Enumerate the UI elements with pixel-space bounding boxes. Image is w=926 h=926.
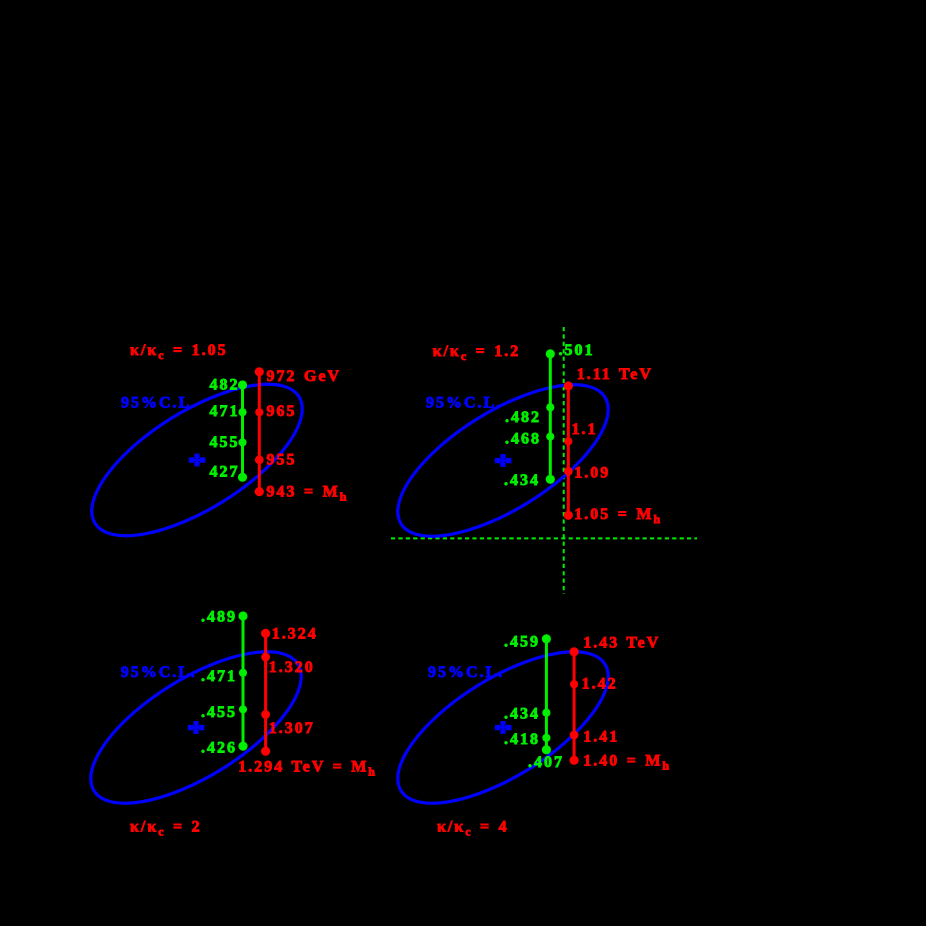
green label .468 [505,431,541,448]
red dot 1.05 [564,511,573,520]
red dot 955 [255,455,264,464]
red label 955 [267,452,297,469]
red label 1.09 [574,464,610,481]
svg-text:.418: .418 [504,731,540,748]
red chain line BR [573,652,576,761]
svg-text:972 GeV: 972 GeV [267,368,342,385]
red dot 1.40 [570,756,579,765]
svg-text:95%C.L.: 95%C.L. [426,395,502,412]
svg-text:1.320: 1.320 [269,659,315,676]
red dot 1.307 [261,710,270,719]
green label .501 [559,342,595,359]
label 95%C.L. TL [121,395,197,412]
svg-text:.468: .468 [505,431,541,448]
svg-text:.407: .407 [528,754,564,771]
ellipse 95% CL contour TL [69,355,325,565]
label 95%C.L. BR [428,664,504,681]
green dot .434 [546,475,555,484]
red dot 1.43 [570,647,579,656]
svg-text:κ/κc = 4: κ/κc = 4 [437,818,509,838]
red dot 1.09 [564,467,573,476]
svg-text:κ/κc = 1.2: κ/κc = 1.2 [433,343,521,363]
green label 455 [210,434,240,451]
best-fit cross marker TR [495,454,512,467]
svg-text:.434: .434 [504,705,540,722]
green chain line TL [241,385,244,477]
svg-text:1.43 TeV: 1.43 TeV [583,634,660,651]
green chain line TR [549,354,552,479]
red dot 965 [255,408,263,416]
green dot 471 [238,408,246,416]
svg-text:.501: .501 [559,342,595,359]
green chain line BR [545,639,548,750]
red label 1.320 [269,659,315,676]
green label .407 [528,754,564,771]
svg-text:471: 471 [210,403,240,420]
svg-text:1.42: 1.42 [582,676,618,693]
red label 1.11 TeV [577,366,653,383]
green label .434 [504,705,540,722]
red label 965 [267,403,297,420]
green dot .459 [542,634,551,643]
red label 1.40 = M_h [583,753,671,773]
green dot .426 [238,742,247,751]
svg-text:95%C.L.: 95%C.L. [121,395,197,412]
red dot 972 [255,367,264,376]
red label 1.43 TeV [583,634,660,651]
svg-text:.482: .482 [505,409,541,426]
red label 1.42 [582,676,618,693]
red chain line BL [264,633,267,751]
green label 427 [210,463,240,480]
red dot 1.294 [261,747,270,756]
red label 1.05 = M_h [574,506,662,526]
red dot 1.11 [564,381,573,390]
red chain line TR [567,386,570,515]
green label .459 [504,634,540,651]
green dot .482 [546,403,554,411]
green label .482 [505,409,541,426]
green chain line BL [242,616,245,746]
svg-text:95%C.L.: 95%C.L. [428,664,504,681]
green dot .471 [239,669,247,677]
panel BL: kappa/kappa_c = 2 [68,608,377,838]
green label .471 [201,668,237,685]
green label .418 [504,731,540,748]
green dot .407 [542,745,551,754]
svg-text:.471: .471 [201,668,237,685]
green label 471 [210,403,240,420]
svg-text:943 = Mh: 943 = Mh [267,484,349,504]
svg-text:.434: .434 [504,472,540,489]
svg-text:.489: .489 [201,608,237,625]
svg-text:κ/κc = 1.05: κ/κc = 1.05 [130,342,228,362]
svg-text:455: 455 [210,434,240,451]
red label 1.324 [272,626,318,643]
dashed crosshair vertical line [563,327,565,594]
label 95%C.L. TR [426,395,502,412]
red dot 1.42 [570,680,578,688]
svg-text:965: 965 [267,403,297,420]
red label 943 = M_h [267,484,349,504]
green label .455 [201,704,237,721]
svg-text:κ/κc = 2: κ/κc = 2 [130,818,202,838]
panel BR: kappa/kappa_c = 4 [375,623,671,839]
green dot .489 [238,611,247,620]
title kappa/kappa_c = 4 [437,818,509,838]
best-fit cross marker BL [188,721,205,734]
svg-text:482: 482 [210,377,240,394]
red dot 1.1 [564,437,572,445]
svg-text:.455: .455 [201,704,237,721]
svg-text:427: 427 [210,463,240,480]
svg-text:95%C.L.: 95%C.L. [121,664,197,681]
best-fit cross marker BR [495,721,512,734]
green dot .468 [546,433,554,441]
dashed crosshair horizontal line [391,537,697,539]
panel TL: kappa/kappa_c = 1.05 [69,342,348,565]
green label .489 [201,608,237,625]
green dot 482 [238,380,247,389]
green label .434 [504,472,540,489]
svg-text:1.09: 1.09 [574,464,610,481]
green dot .501 [546,349,555,358]
svg-text:1.307: 1.307 [269,720,315,737]
ellipse 95% CL contour BL [68,623,324,833]
title kappa/kappa_c = 1.05 [130,342,228,362]
svg-text:1.324: 1.324 [272,626,318,643]
svg-text:.459: .459 [504,634,540,651]
green dot .434 [542,709,550,717]
svg-text:1.05 = Mh: 1.05 = Mh [574,506,662,526]
title kappa/kappa_c = 1.2 [433,343,521,363]
green dot .455 [239,705,247,713]
green dot .418 [542,734,550,742]
green label .426 [201,739,237,756]
svg-text:1.41: 1.41 [583,728,619,745]
red dot 943 [255,487,264,496]
red label 1.307 [269,720,315,737]
green dot 455 [238,438,246,446]
green dot 427 [238,473,247,482]
best-fit cross marker TL [189,454,206,467]
red dot 1.320 [261,653,270,662]
svg-text:955: 955 [267,452,297,469]
red label 972 GeV [267,368,342,385]
ellipse 95% CL contour TR [375,356,631,566]
svg-text:1.1: 1.1 [572,421,598,438]
svg-text:1.11 TeV: 1.11 TeV [577,366,653,383]
red label 1.1 [572,421,598,438]
label 95%C.L. BL [121,664,197,681]
title kappa/kappa_c = 2 [130,818,202,838]
red label 1.294 TeV = M_h [238,759,377,779]
red chain line TL [258,372,261,492]
red dot 1.41 [570,731,579,740]
svg-text:1.40 = Mh: 1.40 = Mh [583,753,671,773]
svg-text:1.294 TeV = Mh: 1.294 TeV = Mh [238,759,377,779]
red dot 1.324 [261,629,270,638]
ellipse 95% CL contour BR [375,623,631,833]
svg-text:.426: .426 [201,739,237,756]
green label 482 [210,377,240,394]
red label 1.41 [583,728,619,745]
panel TR: kappa/kappa_c = 1.2 [375,327,697,594]
